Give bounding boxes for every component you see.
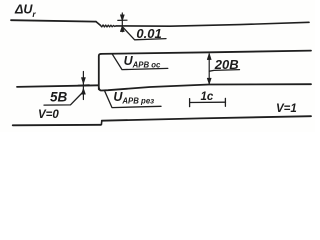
wire U_ARV_os step edge (vertical) bbox=[99, 54, 101, 89]
dimension marker 0.01 upper tick bbox=[118, 19, 127, 21]
leader line to 5V label bbox=[44, 92, 83, 105]
label V=1 bbox=[276, 103, 297, 115]
dimension 20V down arrowhead bbox=[207, 78, 211, 84]
dimension marker 0.01 down arrowhead bbox=[120, 15, 124, 21]
wire U_ARV_os high level bbox=[101, 51, 311, 54]
dimension marker 5V tick bbox=[78, 84, 89, 86]
dimension 1s left tick bbox=[189, 99, 191, 107]
dimension 20V up arrowhead bbox=[207, 53, 211, 59]
wire dU_r oscillation burst bbox=[101, 25, 117, 27]
dimension marker 0.01 vertical line bbox=[121, 13, 123, 32]
label 5V bbox=[50, 90, 68, 105]
label 20V bbox=[214, 57, 239, 72]
wire V high level bbox=[102, 116, 311, 121]
label U_ARV_rez bbox=[113, 90, 154, 106]
wire dU_r level segment (right) bbox=[116, 22, 309, 26]
label 1s bbox=[201, 91, 214, 103]
svg-text:1с: 1с bbox=[201, 91, 214, 103]
leader line to U_ARV_rez label bbox=[105, 91, 161, 107]
svg-text:ΔUr: ΔUr bbox=[14, 2, 36, 18]
label dU_r bbox=[14, 2, 36, 18]
dimension 1s right tick bbox=[224, 98, 226, 106]
leader line to U_ARV_os label bbox=[112, 54, 168, 69]
wire dU_r level segment (left) bbox=[11, 20, 96, 21]
dimension marker 5V vertical line bbox=[82, 72, 84, 100]
leader line to 0.01 label bbox=[123, 28, 166, 40]
svg-text:5В: 5В bbox=[50, 90, 68, 105]
wire dU_r dip edge bbox=[96, 22, 101, 26]
label U_ARV_os bbox=[124, 54, 161, 70]
label V=0 bbox=[38, 109, 59, 121]
wire U_ARV_rez level bbox=[99, 84, 311, 90]
dimension marker 5V down arrowhead bbox=[81, 78, 85, 84]
svg-text:UАРВ ос: UАРВ ос bbox=[124, 54, 161, 70]
leader line to 20V label bbox=[209, 70, 239, 72]
svg-text:20В: 20В bbox=[214, 57, 239, 72]
dimension 1s horizontal line bbox=[190, 101, 226, 103]
dimension 20V vertical arrow shaft bbox=[208, 54, 210, 84]
dimension marker 0.01 up arrowhead bbox=[120, 26, 124, 32]
svg-text:0.01: 0.01 bbox=[136, 26, 161, 41]
svg-text:UАРВ рез: UАРВ рез bbox=[113, 90, 154, 106]
wire V step edge bbox=[101, 121, 102, 125]
svg-text:V=0: V=0 bbox=[38, 109, 59, 121]
wire V low level bbox=[13, 124, 101, 127]
dimension marker 5V up arrowhead bbox=[81, 88, 85, 94]
svg-text:V=1: V=1 bbox=[276, 103, 297, 115]
wire common baseline (before step) bbox=[17, 85, 99, 87]
label 0.01 bbox=[136, 26, 161, 41]
